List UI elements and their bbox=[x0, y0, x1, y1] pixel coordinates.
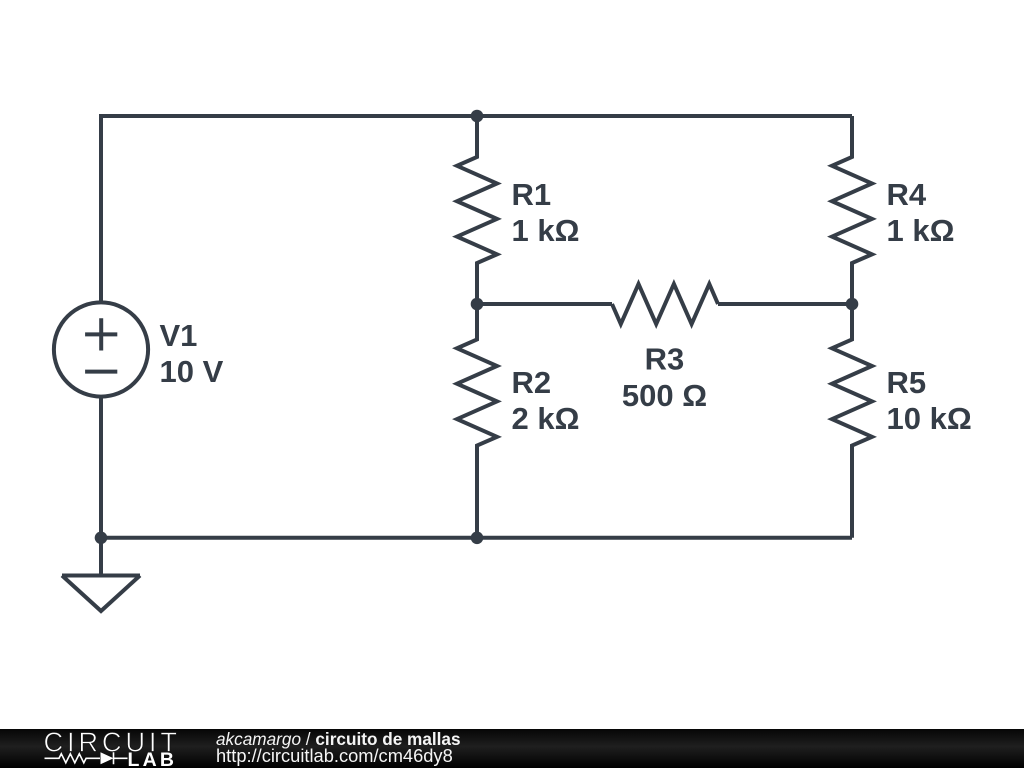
wire top rail bbox=[101, 114, 852, 118]
wire bottom rail bbox=[101, 536, 852, 540]
ground symbol bbox=[62, 538, 140, 611]
node bottom-middle junction bbox=[471, 532, 484, 545]
resistor R5 bbox=[832, 304, 872, 538]
svg-text:2 kΩ: 2 kΩ bbox=[512, 401, 580, 436]
V1 plus sign bbox=[85, 318, 117, 350]
resistor R1 bbox=[457, 116, 497, 304]
svg-text:1 kΩ: 1 kΩ bbox=[887, 213, 955, 248]
svg-text:R1: R1 bbox=[512, 177, 552, 212]
wire left rail lower (V1 bottom to ground rail) bbox=[99, 396, 103, 538]
svg-text:R3: R3 bbox=[645, 342, 685, 377]
svg-text:R2: R2 bbox=[512, 365, 552, 400]
svg-text:10 V: 10 V bbox=[160, 354, 224, 389]
resistor R2 bbox=[457, 304, 497, 538]
V1 minus sign bbox=[85, 370, 117, 374]
logo resistor-diode line bbox=[45, 752, 128, 764]
svg-text:LAB: LAB bbox=[128, 749, 178, 768]
svg-text:1 kΩ: 1 kΩ bbox=[512, 213, 580, 248]
svg-text:V1: V1 bbox=[160, 318, 198, 353]
svg-text:500 Ω: 500 Ω bbox=[622, 378, 707, 413]
node bottom-left junction (ground tap) bbox=[95, 532, 108, 545]
voltage source V1 circle bbox=[54, 302, 148, 396]
logo diode triangle bbox=[101, 752, 114, 764]
svg-text:R5: R5 bbox=[887, 365, 927, 400]
svg-text:R4: R4 bbox=[887, 177, 927, 212]
wire left rail upper (to V1 top) bbox=[99, 114, 103, 303]
wire middle rail (node B to R3 and to right rail) bbox=[477, 302, 852, 306]
node top-middle junction bbox=[471, 110, 484, 123]
resistor R4 bbox=[832, 116, 872, 304]
node middle-left junction (R1/R2/R3) bbox=[471, 298, 484, 311]
svg-text:http://circuitlab.com/cm46dy8: http://circuitlab.com/cm46dy8 bbox=[216, 745, 453, 766]
svg-text:10 kΩ: 10 kΩ bbox=[887, 401, 972, 436]
node middle-right junction (R4/R5/R3) bbox=[846, 298, 859, 311]
resistor R3 bbox=[612, 284, 718, 324]
